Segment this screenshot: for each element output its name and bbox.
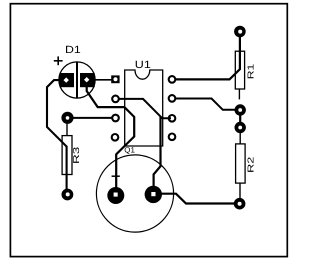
resistor R1 lead bottom	[238, 89, 240, 100]
IC U1 pin4 pad	[112, 134, 119, 141]
resistor R3 bottom pad hole	[66, 192, 70, 196]
transistor Q1 left pad hole	[114, 193, 118, 197]
wire R3 top pad to U1 pin3	[68, 117, 113, 119]
transistor Q1 outline circle	[96, 155, 173, 232]
wire D1 cathode to U1 pin1	[93, 79, 112, 81]
diode D1 left pad (anode)	[60, 73, 75, 87]
svg-text:R3: R3	[71, 146, 81, 164]
resistor R3 outline	[62, 136, 72, 175]
svg-text:U1: U1	[135, 59, 151, 71]
IC U1 pin3 pad	[112, 115, 119, 122]
resistor R2 bottom pad hole	[238, 202, 242, 206]
transistor Q1 polarity tick	[112, 175, 120, 177]
IC U1 pin1 hole	[114, 77, 118, 81]
resistor R1 top pad	[234, 26, 246, 38]
wire net U1 pin2 to U1 pin7	[119, 99, 171, 118]
IC U1 outline	[125, 70, 163, 146]
transistor Q1 right pad hole	[151, 192, 155, 196]
diode D1 polarity plus	[54, 56, 63, 65]
resistor R3 lead bottom	[66, 174, 68, 190]
IC U1 pin7 pad	[169, 95, 176, 102]
transistor Q1 left pad	[107, 187, 124, 204]
resistor R1 top pad hole	[238, 30, 242, 34]
transistor Q1 right pad	[145, 186, 162, 203]
resistor R3 bottom pad	[62, 189, 74, 201]
resistor R1 bottom pad	[235, 104, 246, 115]
diode D1 left pad hole	[64, 77, 69, 82]
resistor R1 outline	[235, 51, 244, 89]
diode D1 right pad (cathode)	[80, 73, 95, 87]
wire net D1 cathode to Q1 left pad	[87, 86, 135, 194]
resistor R3 lead top	[66, 122, 68, 136]
resistor R3 top pad	[61, 112, 73, 124]
R2 top pad	[235, 122, 246, 133]
wire Q1 right pad to R2 bottom pad	[160, 194, 236, 204]
diode D1 outline circle	[59, 62, 95, 98]
IC U1 pin2 pad	[112, 96, 119, 103]
svg-text:R2: R2	[245, 156, 255, 173]
IC U1 pin8 pad	[169, 76, 176, 83]
IC U1 pin5 pad	[169, 134, 176, 141]
diode D1 center bar	[76, 62, 78, 98]
resistor R2 outline	[236, 144, 246, 183]
wire branch U1 pin7 net to Q1 right pad	[154, 117, 161, 193]
IC U1 pin6 pad	[169, 115, 176, 122]
svg-text:Q1: Q1	[124, 146, 135, 155]
resistor R2 lead top	[239, 130, 241, 145]
resistor R2 lead bottom	[239, 183, 241, 200]
resistor R1 bottom pad hole	[238, 108, 242, 112]
diode D1 right pad hole	[84, 77, 89, 82]
resistor R3 top pad hole	[66, 116, 70, 120]
svg-text:D1: D1	[65, 44, 81, 56]
wire U1 pin8 to R1 top pad	[176, 34, 240, 79]
R2 top pad hole	[238, 126, 242, 130]
svg-text:R1: R1	[245, 63, 255, 79]
IC U1 pin1 square pad	[111, 75, 119, 83]
wire R1 bottom pad to R2 top pad	[239, 113, 241, 124]
wire net D1 anode to R3 bottom pad	[47, 80, 67, 194]
wire U1 pin6 to R1 bottom pad	[176, 99, 237, 110]
resistor R2 bottom pad	[234, 198, 246, 210]
